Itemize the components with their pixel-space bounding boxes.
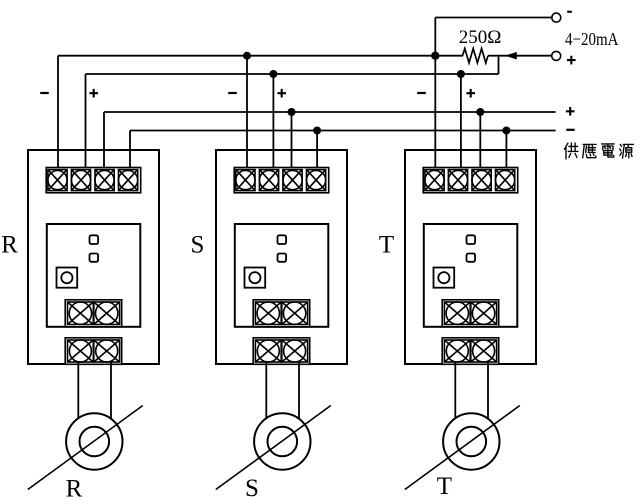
- label - polarity module T terminal1: [417, 92, 426, 94]
- wire bus4 down to module T terminal 4: [505, 131, 507, 171]
- current transformer CT-T core: [443, 413, 499, 469]
- terminal strip X3 module S (CT 2 terminals): [253, 338, 310, 365]
- wire bus3 down to module S terminal 3: [291, 112, 293, 170]
- transducer module R outer box: [28, 150, 159, 364]
- wire bus1 down to module R terminal 1: [57, 56, 59, 170]
- wire plus loop (R,S,T terminal 2 bus): [86, 73, 499, 75]
- junction minus-loop / T terminal1 / resistor: [431, 52, 439, 60]
- wire module S k lead to CT: [265, 362, 267, 420]
- label + polarity module R terminal2: [89, 89, 98, 98]
- wire negative output top segment: [435, 17, 552, 19]
- label - at J1: [567, 11, 572, 13]
- module R LED indicator 2: [90, 254, 99, 262]
- svg-text:S: S: [191, 232, 205, 259]
- label + polarity module S terminal2: [277, 89, 286, 98]
- wire primary conductor phase T through CT: [405, 406, 520, 490]
- wire bus2 down to module R terminal 2: [85, 74, 87, 170]
- terminal strip X2 module T (inner 2 terminals): [442, 300, 499, 327]
- transducer module T outer box: [405, 150, 536, 364]
- wire resistor right drop to plus loop: [498, 56, 500, 74]
- svg-text:T: T: [379, 232, 394, 259]
- terminal J2 + (4-20mA plus): [552, 51, 561, 60]
- module T set button: [434, 268, 455, 288]
- wire supply plus bus: [104, 111, 556, 113]
- current transformer CT-R core: [66, 413, 122, 469]
- label + polarity module T terminal2: [466, 89, 475, 98]
- wire bus3 down to module T terminal 3: [479, 112, 481, 170]
- svg-text:R: R: [66, 476, 83, 503]
- label - polarity module S terminal1: [228, 92, 237, 94]
- wire resistor right stub: [488, 55, 499, 57]
- terminal strip X1 module T (4 input terminals): [423, 168, 518, 193]
- module S inner front panel: [235, 224, 328, 327]
- wire module S l lead to CT: [298, 362, 300, 419]
- label supply power char Ying: [583, 144, 597, 158]
- junction plus-loop / T terminal2: [457, 70, 465, 78]
- wire bus4 down to module R terminal 4: [129, 131, 131, 171]
- label - polarity module R terminal1: [40, 92, 49, 94]
- label supply power char Dian: [602, 144, 615, 157]
- module T inner front panel: [424, 224, 518, 327]
- label supply power char Gong: [564, 143, 578, 159]
- wire primary conductor phase R through CT: [28, 406, 143, 490]
- current transformer CT-S core: [254, 413, 310, 469]
- svg-text:S: S: [245, 475, 259, 502]
- terminal strip X1 module S (4 input terminals): [234, 168, 329, 193]
- junction supply-minus / T terminal4: [502, 127, 510, 135]
- module S LED indicator 1: [278, 235, 287, 244]
- arrow current direction into resistor: [505, 52, 517, 60]
- wire bus2 down to module T terminal 2: [460, 74, 462, 170]
- terminal strip X3 module T (CT 2 terminals): [442, 338, 499, 365]
- wire bus4 down to module S terminal 4: [316, 131, 318, 171]
- wire module T k lead to CT: [454, 362, 456, 420]
- wire primary conductor phase S through CT: [216, 406, 331, 490]
- terminal strip X2 module R (inner 2 terminals): [65, 300, 122, 327]
- svg-text:4−20mA: 4−20mA: [565, 29, 619, 49]
- wire vertical T terminal1 to top: [434, 18, 436, 171]
- junction supply-plus / S terminal3: [288, 108, 296, 116]
- wire supply minus bus: [130, 130, 556, 132]
- svg-text:T: T: [437, 473, 452, 500]
- terminal strip X3 module R (CT 2 terminals): [65, 338, 122, 365]
- wire module R l lead to CT: [110, 362, 112, 419]
- wire from J2 plus with direction: [499, 55, 552, 57]
- junction plus-loop / S terminal2: [269, 70, 277, 78]
- module R set button: [57, 268, 78, 288]
- module R LED indicator 1: [90, 235, 99, 244]
- svg-text:250Ω: 250Ω: [459, 27, 502, 48]
- label supply power char Yuan: [620, 144, 634, 158]
- module T LED indicator 2: [467, 254, 476, 262]
- module R inner front panel: [47, 224, 141, 327]
- wire bus1 down to module S terminal 1: [246, 56, 248, 170]
- terminal strip X1 module R (4 input terminals): [46, 168, 141, 193]
- wire bus3 down to module R terminal 3: [103, 112, 105, 170]
- junction supply-plus / T terminal3: [476, 108, 484, 116]
- label + supply plus: [566, 107, 575, 116]
- label + at J2: [567, 56, 576, 65]
- svg-text:R: R: [1, 232, 18, 259]
- terminal strip X2 module S (inner 2 terminals): [253, 300, 310, 327]
- resistor R1 250 ohm: [463, 49, 489, 63]
- junction supply-minus / S terminal4: [313, 127, 321, 135]
- wire bus2 down to module S terminal 2: [272, 74, 274, 170]
- wire module T l lead to CT: [487, 362, 489, 419]
- label - supply minus: [566, 129, 574, 131]
- module S LED indicator 2: [278, 254, 287, 262]
- wire module R k lead to CT: [77, 362, 79, 420]
- junction minus-loop / S terminal1: [243, 52, 251, 60]
- wire minus loop (R,S,T terminal 1 bus): [58, 55, 463, 57]
- module T LED indicator 1: [467, 235, 476, 244]
- terminal J1 - (4-20mA minus): [552, 13, 561, 22]
- transducer module S outer box: [216, 150, 347, 364]
- module S set button: [245, 268, 266, 288]
